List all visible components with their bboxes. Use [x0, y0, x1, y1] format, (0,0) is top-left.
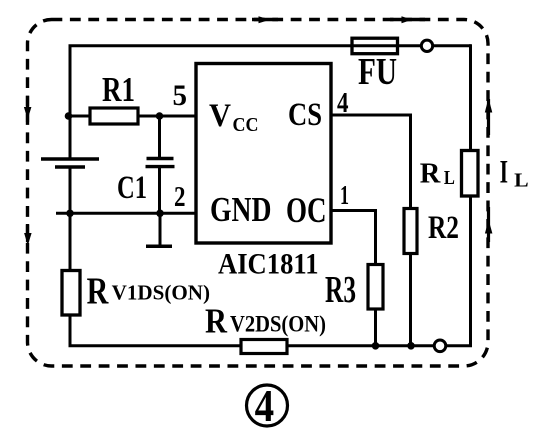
wire: R3 bottom to bottom rail [374, 309, 377, 346]
resistor RL [462, 151, 479, 197]
wire: GND rail to pin 2 [56, 212, 196, 215]
resistor R2 [404, 209, 417, 254]
IC U1 AIC1811 [196, 64, 331, 244]
svg-text:CS: CS [288, 97, 322, 133]
svg-text:2: 2 [174, 181, 186, 213]
wire: top rail from left corner to fuse and terminal [70, 46, 421, 161]
svg-text:1: 1 [340, 180, 349, 210]
terminal (open circle) after fuse [421, 40, 432, 51]
svg-text:R1: R1 [102, 70, 135, 109]
junction dot R1 left node [65, 112, 73, 120]
arrow on right border (lower, pointing up) [485, 207, 493, 242]
svg-text:I: I [500, 155, 508, 191]
resistor R3 [368, 265, 383, 310]
svg-text:5: 5 [173, 79, 188, 112]
fuse FU [352, 38, 398, 54]
svg-text:FU: FU [358, 51, 397, 93]
wire: C1 bottom to GND rail [158, 168, 161, 213]
svg-text:R3: R3 [325, 269, 356, 311]
wire: CS pin 4 to R2 top [331, 115, 411, 209]
wire: R1 output to VCC pin 5 [138, 115, 196, 118]
resistor RV2DS(ON) [241, 340, 287, 354]
wire: bottom rail right segment [287, 344, 434, 347]
wire: RV1 bottom to bottom rail left segment [70, 314, 241, 346]
wire: RL bottom down to output terminal corner [447, 196, 471, 346]
wire: right branch down to load resistor [469, 44, 472, 151]
figure number circle 4 [247, 381, 288, 431]
svg-text:C1: C1 [117, 170, 147, 206]
arrow on top border (left, pointing right) [252, 16, 278, 23]
svg-text:4: 4 [337, 87, 349, 119]
arrow on top border (right, pointing right) [390, 16, 425, 23]
resistor R1 [90, 108, 138, 124]
svg-text:R: R [205, 302, 228, 341]
arrow on right border (upper, pointing up) [485, 98, 493, 135]
wire: R2 bottom to bottom rail [409, 254, 412, 346]
svg-text:L: L [514, 169, 529, 191]
svg-text:CC: CC [233, 114, 259, 136]
svg-text:R2: R2 [428, 210, 459, 246]
junction dot battery minus / GND rail [66, 210, 74, 218]
svg-text:R: R [420, 158, 442, 190]
svg-text:GND: GND [210, 190, 272, 229]
wire: OC pin 1 to R3 top [331, 211, 376, 266]
wire: R1 input from battery node [69, 115, 91, 118]
svg-text:V1DS(ON): V1DS(ON) [112, 281, 210, 305]
arrow on left border (upper, pointing down) [24, 96, 32, 122]
junction dot R3 bottom rail [372, 342, 380, 350]
svg-text:4: 4 [255, 381, 275, 431]
terminal (open circle) bottom right [434, 340, 446, 352]
dashed module border [28, 20, 489, 367]
resistor RV1DS(ON) [62, 271, 80, 316]
battery [41, 159, 99, 167]
wire: C1 top connection [158, 115, 161, 159]
junction dot C1 bottom / GND rail [156, 210, 164, 218]
svg-text:AIC1811: AIC1811 [218, 248, 319, 281]
capacitor C1 [146, 159, 175, 167]
junction dot R2 bottom rail [407, 342, 415, 350]
wire: battery negative down to RV1 [69, 167, 72, 271]
ground symbol below GND rail [146, 213, 172, 246]
svg-text:R: R [87, 270, 109, 312]
svg-text:V2DS(ON): V2DS(ON) [230, 312, 326, 337]
svg-text:V: V [209, 98, 231, 134]
junction dot node 5 / C1 top [156, 112, 164, 120]
arrow on left border (lower, pointing down) [24, 224, 32, 246]
svg-text:L: L [444, 167, 455, 189]
svg-text:OC: OC [286, 190, 327, 230]
